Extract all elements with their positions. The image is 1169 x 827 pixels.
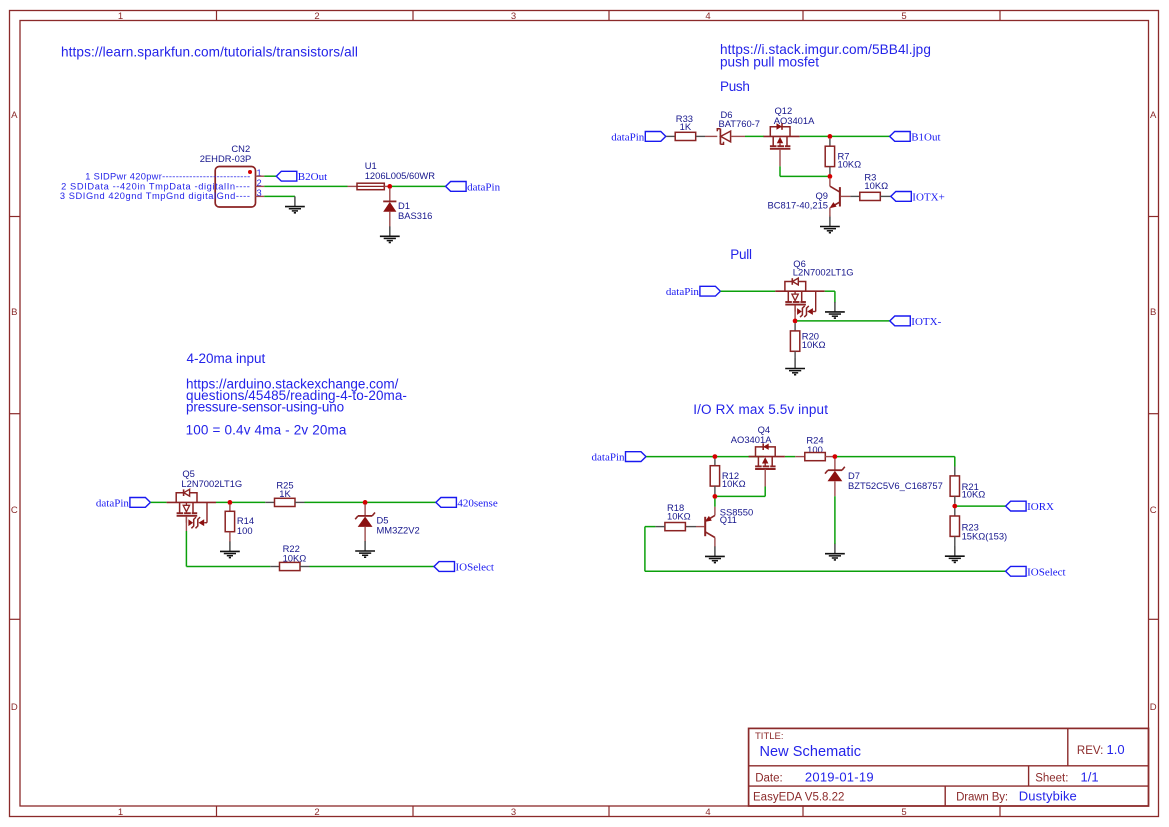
svg-text:C: C [11, 505, 18, 516]
svg-text:1K: 1K [680, 121, 692, 132]
net port IOTX+ [891, 192, 912, 202]
wire R24 to R21 column [837, 456, 955, 458]
svg-text:Dustybike: Dustybike [1019, 789, 1077, 804]
svg-text:AO3401A: AO3401A [774, 115, 815, 126]
net port dataPin (top left) [446, 182, 467, 192]
resistor R12 10KOhm [710, 459, 745, 494]
svg-text:L2N7002LT1G: L2N7002LT1G [181, 478, 242, 489]
svg-text:Sheet:: Sheet: [1035, 773, 1068, 785]
wire Q5 drain to R25 [216, 501, 265, 503]
ground (R20) [794, 358, 796, 360]
svg-text:Q11: Q11 [720, 514, 737, 525]
svg-text:BAT760-7: BAT760-7 [719, 118, 761, 129]
svg-text:L2N7002LT1G: L2N7002LT1G [793, 267, 854, 278]
resistor R14 100 [225, 504, 254, 541]
svg-text:Date:: Date: [755, 773, 783, 785]
svg-text:1K: 1K [279, 488, 291, 499]
svg-text:push pull mosfet: push pull mosfet [720, 55, 819, 70]
svg-text:4-20ma input: 4-20ma input [187, 351, 266, 366]
svg-text:100 = 0.4v 4ma - 2v 20ma: 100 = 0.4v 4ma - 2v 20ma [186, 423, 347, 438]
svg-text:1: 1 [118, 11, 123, 22]
node: R7/Q9 junction [828, 174, 833, 179]
node: Q6 gate / R20 junction [793, 319, 798, 324]
svg-text:dataPin: dataPin [592, 452, 625, 464]
wire dataPin to Q5 [151, 501, 167, 503]
svg-text:dataPin: dataPin [611, 131, 644, 143]
svg-text:dataPin: dataPin [96, 497, 129, 509]
svg-text:10KΩ: 10KΩ [838, 159, 862, 170]
svg-text:BC817-40,215: BC817-40,215 [768, 200, 828, 211]
connector CN2 2EHDR-03P [200, 143, 256, 207]
transistor Q4 AO3401A [731, 424, 785, 487]
net port B2Out [276, 171, 297, 181]
svg-text:dataPin: dataPin [666, 286, 699, 298]
svg-text:A: A [11, 110, 18, 121]
svg-text:5: 5 [901, 11, 906, 22]
wire Q4 gate to R12 junction [764, 487, 766, 497]
svg-text:10KΩ: 10KΩ [667, 510, 691, 521]
wire R18 to IOSelect row [645, 526, 656, 528]
svg-text:REV:: REV: [1077, 745, 1103, 757]
svg-text:IORX: IORX [1027, 501, 1054, 513]
svg-text:B2Out: B2Out [298, 171, 327, 183]
CN2 pin 1 lead [256, 175, 265, 177]
svg-text:10KΩ: 10KΩ [283, 552, 307, 563]
diode D1 BAS316 [383, 188, 432, 221]
wire U1 to dataPin [392, 185, 446, 187]
svg-text:2: 2 [314, 11, 319, 22]
resistor R24 100 [785, 435, 835, 461]
svg-text:1206L005/60WR: 1206L005/60WR [365, 170, 436, 181]
svg-text:Drawn By:: Drawn By: [956, 791, 1008, 803]
wire CN2 pin1 to B2Out [264, 175, 276, 177]
svg-text:B: B [11, 307, 17, 318]
svg-text:3: 3 [511, 807, 516, 818]
svg-text:D: D [1150, 702, 1157, 713]
svg-text:2: 2 [314, 807, 319, 818]
net port IOSelect (left) [434, 562, 455, 572]
svg-text:10KΩ: 10KΩ [864, 180, 888, 191]
node: Q12/R7 junction [828, 134, 833, 139]
resistor R18 10KOhm [655, 502, 696, 531]
ground (CN2 pin3) [294, 195, 296, 198]
resistor R25 1K [265, 479, 304, 506]
svg-text:I/O RX max 5.5v input: I/O RX max 5.5v input [693, 402, 828, 417]
svg-text:IOTX-: IOTX- [911, 316, 941, 328]
svg-text:TITLE:: TITLE: [755, 731, 784, 742]
svg-text:3: 3 [511, 11, 516, 22]
resistor R23 15KOhm(153) [950, 508, 1007, 546]
wire R22 to IOSelect [310, 566, 435, 568]
svg-text:IOSelect: IOSelect [456, 562, 494, 574]
transistor Q5 L2N7002LT1G [167, 468, 243, 531]
svg-text:BZT52C5V6_C168757: BZT52C5V6_C168757 [848, 480, 943, 491]
net port 420sense [436, 498, 457, 508]
svg-text:A: A [1150, 110, 1157, 121]
svg-text:10KΩ: 10KΩ [802, 339, 826, 350]
svg-text:4: 4 [705, 807, 710, 818]
svg-text:1 SIDPwr 420pwr---------------: 1 SIDPwr 420pwr-------------------------… [85, 171, 250, 181]
resistor R7 10KOhm [825, 139, 861, 174]
svg-text:1: 1 [118, 807, 123, 818]
wire dataPin to Q4 [646, 456, 764, 458]
net port IOTX- [890, 316, 911, 326]
resistor R21 10KOhm [950, 467, 985, 504]
svg-text:https://learn.sparkfun.com/tut: https://learn.sparkfun.com/tutorials/tra… [61, 44, 358, 59]
fuse U1 1206L005/60WR [348, 160, 436, 190]
svg-text:MM3Z2V2: MM3Z2V2 [377, 525, 420, 536]
svg-text:2EHDR-03P: 2EHDR-03P [200, 153, 252, 164]
wire D6 to Q12 [745, 135, 764, 137]
wire R12 to Q11 collector [714, 499, 716, 507]
svg-text:New Schematic: New Schematic [760, 744, 862, 760]
wire CN2 pin3 to ground [264, 195, 295, 197]
svg-text:Push: Push [720, 79, 750, 94]
node: R12 top junction [713, 454, 718, 459]
zener diode D7 BZT52C5V6_C168757 [825, 459, 943, 496]
node: R21/R23 junction [952, 504, 957, 509]
title block [749, 728, 1149, 806]
zener diode D5 MM3Z2V2 [355, 504, 420, 541]
svg-text:2019-01-19: 2019-01-19 [805, 770, 874, 785]
ground (R14) [229, 541, 231, 543]
resistor R33 1K [666, 113, 705, 141]
svg-text:IOSelect: IOSelect [1027, 566, 1065, 578]
wire CN2 pin2 to U1 [264, 185, 347, 187]
svg-text:420sense: 420sense [457, 497, 497, 509]
net port B1Out [890, 132, 911, 142]
net port IOSelect (right) [1006, 566, 1027, 576]
transistor Q9 BC817-40,215 [768, 179, 851, 216]
svg-text:B1Out: B1Out [911, 131, 940, 143]
ground (D1) [389, 212, 391, 227]
net port IORX [1006, 501, 1027, 511]
svg-text:Pull: Pull [730, 247, 752, 262]
resistor R22 10KOhm [270, 543, 309, 571]
svg-text:EasyEDA V5.8.22: EasyEDA V5.8.22 [753, 791, 844, 803]
wire Q6 gate to IOTX- [797, 320, 890, 322]
svg-text:B: B [1150, 307, 1156, 318]
wire Q12 gate down [779, 166, 781, 176]
wire Q12 drain to B1Out [800, 135, 890, 137]
diode D6 BAT760-7 [705, 109, 760, 145]
transistor Q11 SS8550 [696, 506, 753, 546]
ground (D5) [364, 540, 366, 542]
transistor Q12 AO3401A [764, 105, 816, 166]
ground (Q6 source) [834, 302, 836, 312]
CN2 pin 3 lead [256, 195, 265, 197]
svg-text:3 SDIGnd 420gnd TmpGnd digital: 3 SDIGnd 420gnd TmpGnd digitalGnd---- [60, 191, 251, 201]
wire Q6 source to ground [825, 290, 835, 292]
node: R12 bottom junction [713, 494, 718, 499]
wire dataPin to Q6 [721, 290, 776, 292]
svg-text:4: 4 [705, 11, 710, 22]
svg-text:10KΩ: 10KΩ [722, 478, 746, 489]
svg-text:D: D [11, 702, 18, 713]
resistor R3 10KOhm [850, 172, 891, 201]
svg-text:2 SDIData --420in TmpData -dig: 2 SDIData --420in TmpData -digitalIn---- [61, 181, 250, 191]
svg-text:15KΩ(153): 15KΩ(153) [962, 531, 1008, 542]
svg-text:BAS316: BAS316 [398, 210, 432, 221]
svg-text:C: C [1150, 505, 1157, 516]
svg-text:5: 5 [901, 807, 906, 818]
svg-text:AO3401A: AO3401A [731, 434, 772, 445]
node: D5 junction [363, 500, 368, 505]
wire junction to IORX [957, 505, 1006, 507]
svg-text:dataPin: dataPin [467, 181, 500, 193]
ground (D7) [834, 543, 836, 545]
ground (R23) [954, 545, 956, 547]
node: R24/D7 junction [833, 454, 838, 459]
wire Q5 gate to IOSelect row [185, 531, 187, 567]
svg-text:10KΩ: 10KΩ [962, 489, 986, 500]
CN2 pin 2 lead [256, 185, 265, 187]
node: U1/D1 junction [387, 184, 392, 189]
node: Q5/R14 junction [228, 500, 233, 505]
ground (Q9 emitter) [829, 215, 831, 217]
svg-text:100: 100 [237, 525, 253, 536]
svg-text:1.0: 1.0 [1107, 742, 1125, 757]
transistor Q6 L2N7002LT1G [775, 258, 853, 318]
resistor R20 10KOhm [790, 323, 825, 359]
ground (Q11) [714, 545, 716, 547]
wire D7 to ground [834, 496, 836, 544]
svg-text:1/1: 1/1 [1081, 770, 1099, 785]
wire R25 to 420sense [305, 501, 437, 503]
svg-text:pressure-sensor-using-uno: pressure-sensor-using-uno [186, 399, 344, 414]
svg-text:IOTX+: IOTX+ [912, 191, 944, 203]
